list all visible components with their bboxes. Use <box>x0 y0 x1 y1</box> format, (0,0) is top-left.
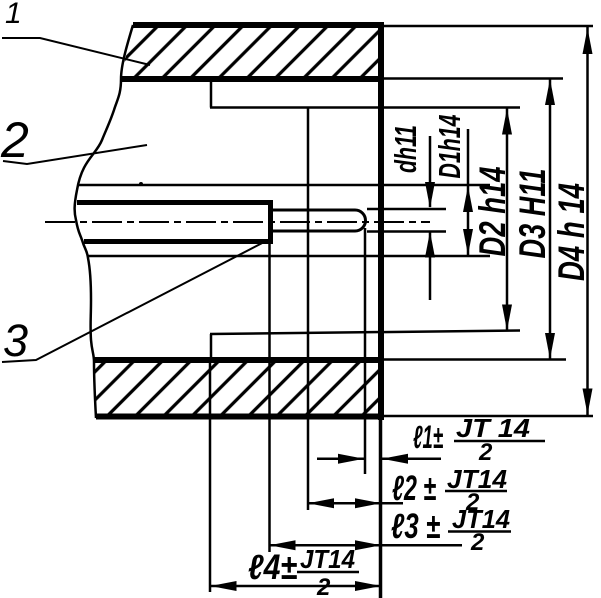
part 1 upper top edge <box>133 22 382 28</box>
D4 down arrow <box>583 389 593 415</box>
d lower extension line <box>367 230 446 233</box>
dimension l4 line <box>211 585 382 588</box>
svg-text:2: 2 <box>470 529 485 556</box>
leader 1 <box>2 38 150 65</box>
dimension l3 line <box>270 544 463 547</box>
D1 down arrow <box>463 229 473 255</box>
svg-text:2: 2 <box>316 574 331 598</box>
part 1 upper sleeve section hatching <box>120 25 381 79</box>
D1 lower extension line <box>87 255 490 258</box>
svg-text:ℓ3 ±: ℓ3 ± <box>391 507 441 546</box>
dimension l1 line left segment <box>317 457 364 460</box>
scan dot on D1 line <box>139 182 143 186</box>
extension line D4 top <box>382 25 593 28</box>
shaft part 2 top edge <box>77 200 271 205</box>
extension line D3 bottom <box>382 358 566 361</box>
D1 upper extension line <box>79 184 490 187</box>
centerline <box>45 221 430 223</box>
part 1 lower bottom edge <box>96 414 384 420</box>
flange face thick line <box>378 22 384 420</box>
svg-text:2: 2 <box>478 439 493 466</box>
bore step bottom edge / D2 top extension <box>210 106 520 109</box>
dimension D4 h14 line <box>586 26 589 416</box>
svg-text:D2 h14: D2 h14 <box>472 167 513 257</box>
l2 right arrow <box>355 498 381 508</box>
part 1 upper bottom edge <box>120 76 382 82</box>
dimension D3 H11 line <box>549 79 552 360</box>
leader 3 <box>2 239 270 362</box>
l4 fraction bar <box>297 571 359 574</box>
D1 up arrow <box>463 186 473 212</box>
svg-text:D3 H11: D3 H11 <box>512 169 553 259</box>
part 3 pin rounded end <box>272 210 366 231</box>
D2 up arrow <box>502 109 512 135</box>
part 1 lower sleeve section hatching <box>93 360 381 416</box>
extension line D4 bottom <box>384 415 593 418</box>
dimension l2 line <box>308 502 403 505</box>
svg-text:D4 h 14: D4 h 14 <box>551 183 592 281</box>
svg-text:ℓ4±: ℓ4± <box>248 548 298 587</box>
dimension D2 h14 line <box>506 108 509 331</box>
flange face line lower continuation <box>379 420 383 598</box>
dimension D1 h14 line <box>467 129 470 255</box>
l1 right arrow (outside) <box>338 454 364 464</box>
part 2 break line <box>75 25 133 418</box>
l1 fraction bar <box>454 440 545 443</box>
l2 left arrow <box>308 498 334 508</box>
l2 fraction bar <box>445 490 507 493</box>
part 1 lower top edge <box>93 357 382 363</box>
svg-text:ℓ1±: ℓ1± <box>413 419 443 455</box>
d h11 down arrow <box>425 182 435 208</box>
svg-text:ℓ2 ±: ℓ2 ± <box>392 469 437 508</box>
l3 left arrow <box>270 540 296 550</box>
l4 extension line <box>209 360 212 592</box>
l3 right arrow <box>355 540 381 550</box>
D3 down arrow <box>545 333 555 359</box>
svg-text:JT 14: JT 14 <box>456 413 531 443</box>
d upper extension line <box>367 208 446 211</box>
lower bore step left edge <box>210 334 213 360</box>
lower bore step edge / D2 bottom extension <box>210 331 520 335</box>
svg-text:D1h14: D1h14 <box>432 115 467 179</box>
svg-text:JT14: JT14 <box>300 544 355 574</box>
leader 2 <box>3 145 147 164</box>
svg-text:3: 3 <box>3 315 28 366</box>
shaft step edge <box>268 200 273 244</box>
l2 extension line <box>307 108 310 510</box>
l3 fraction bar <box>448 530 511 533</box>
D2 down arrow <box>502 305 512 331</box>
dimension d h11 line <box>429 136 432 207</box>
l3 extension line <box>268 243 271 552</box>
svg-text:2: 2 <box>0 112 29 168</box>
D3 up arrow <box>545 79 555 105</box>
l1 left arrow (outside) <box>382 454 408 464</box>
l4 left arrow <box>211 581 237 591</box>
d h11 up arrow <box>425 232 435 258</box>
svg-text:1: 1 <box>5 0 22 30</box>
extension line D3 top <box>382 77 563 80</box>
shaft part 2 bottom edge <box>84 239 271 244</box>
bore step left edge upper <box>210 79 213 108</box>
dimension l1 line right segment <box>382 457 441 460</box>
l1 extension line <box>364 228 367 474</box>
svg-text:dh11: dh11 <box>388 125 423 173</box>
l4 right arrow <box>355 581 381 591</box>
D4 up arrow <box>583 28 593 54</box>
